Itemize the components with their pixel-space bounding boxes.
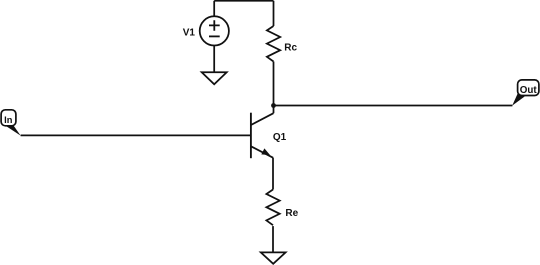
node junction (collector) xyxy=(271,103,276,108)
wire V1 top stub xyxy=(213,1,215,16)
wire input to base xyxy=(21,134,251,136)
transistor Q1 xyxy=(251,113,274,159)
svg-text:V1: V1 xyxy=(183,27,196,38)
port Out xyxy=(512,80,539,106)
wire output xyxy=(274,105,513,107)
ground (below Re) xyxy=(261,252,286,263)
wire right vertical to Rc xyxy=(273,1,275,26)
voltage source V1 xyxy=(200,16,229,45)
port In xyxy=(1,110,21,136)
wire Re to ground xyxy=(272,226,274,252)
svg-text:Out: Out xyxy=(520,85,538,96)
svg-text:In: In xyxy=(4,115,13,125)
svg-text:Re: Re xyxy=(285,208,298,219)
svg-text:Q1: Q1 xyxy=(273,132,287,143)
wire V1 to ground xyxy=(213,46,215,73)
resistor Rc xyxy=(267,26,280,61)
wire top horizontal xyxy=(214,0,273,2)
wire emitter vertical xyxy=(272,158,274,190)
wire collector vertical xyxy=(273,62,275,114)
ground (below V1) xyxy=(202,72,227,84)
resistor Re xyxy=(266,190,279,226)
svg-text:Rc: Rc xyxy=(284,42,297,53)
